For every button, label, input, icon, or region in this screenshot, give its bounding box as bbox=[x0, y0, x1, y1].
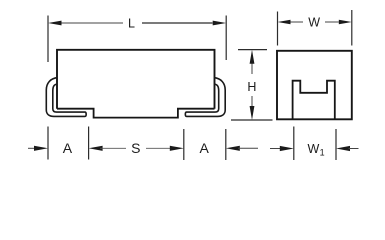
dimension W line segments bbox=[291, 21, 304, 23]
dimension S line segments bbox=[100, 147, 126, 149]
dimension W1 extension line right bbox=[335, 129, 337, 160]
svg-text:A: A bbox=[200, 140, 210, 156]
dimension S arrowhead right bbox=[170, 146, 184, 151]
dimension A right outside arrow with tail bbox=[226, 146, 240, 151]
dimension L extension line right bbox=[225, 16, 227, 61]
svg-text:L: L bbox=[128, 16, 135, 30]
dimension H extension line bottom bbox=[231, 119, 273, 121]
dimension H arrowhead up bbox=[250, 50, 255, 64]
svg-text:W: W bbox=[308, 142, 320, 156]
dimension A/S shared extension line mid right bbox=[183, 129, 185, 160]
dimension W1 extension line left bbox=[293, 127, 295, 161]
svg-text:A: A bbox=[63, 140, 73, 156]
svg-text:W: W bbox=[308, 15, 320, 29]
dimension L line segments bbox=[60, 22, 123, 24]
dimension A/S shared extension line mid left bbox=[88, 127, 90, 160]
dimension A/S shared extension line far left bbox=[47, 127, 49, 160]
dimension H arrowhead down bbox=[250, 106, 255, 120]
dimension L extension line left bbox=[47, 16, 49, 63]
dimension L arrowhead left bbox=[48, 21, 62, 26]
dimension W extension line right bbox=[351, 10, 353, 46]
dimension S arrowhead left bbox=[89, 146, 103, 151]
terminal left, wrap-under band bbox=[46, 78, 86, 117]
dimension L arrowhead right bbox=[213, 21, 227, 26]
dimension A/S shared extension line far right bbox=[225, 129, 227, 160]
terminal profile, end view bbox=[293, 81, 335, 119]
dimension W1 right outside arrow with tail bbox=[336, 146, 350, 151]
case bottom edge with standoff steps bbox=[57, 109, 215, 118]
capacitor case body, side view bbox=[57, 50, 215, 109]
svg-text:H: H bbox=[247, 80, 256, 94]
capacitor case body, end view bbox=[277, 51, 352, 120]
terminal right, wrap-under band bbox=[185, 78, 225, 117]
svg-text:1: 1 bbox=[320, 148, 325, 158]
dimension H line segments bbox=[251, 64, 253, 75]
dimension W arrowhead left bbox=[278, 20, 291, 25]
svg-text:S: S bbox=[131, 140, 140, 156]
dimension W1 left outside arrow with tail bbox=[270, 148, 282, 150]
dimension W extension line left bbox=[277, 12, 279, 46]
dimension W arrowhead right bbox=[339, 20, 352, 25]
dimension A left outside arrow with tail bbox=[28, 147, 36, 149]
dimension H extension line top bbox=[238, 49, 267, 51]
